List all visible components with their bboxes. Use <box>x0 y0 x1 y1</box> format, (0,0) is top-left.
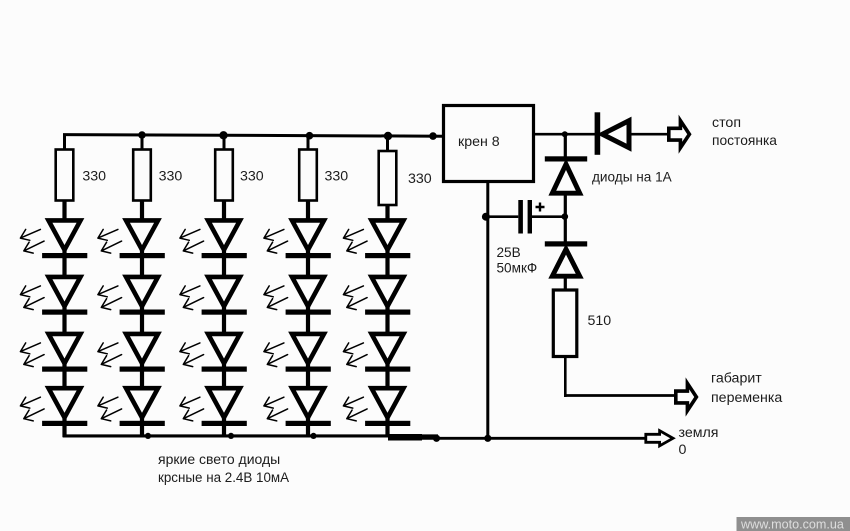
svg-text:стоп: стоп <box>712 115 741 131</box>
svg-text:постоянка: постоянка <box>712 133 777 148</box>
svg-text:0: 0 <box>679 442 687 458</box>
svg-text:крсные на 2.4В 10мА: крсные на 2.4В 10мА <box>158 470 289 485</box>
svg-text:330: 330 <box>240 168 264 184</box>
svg-text:330: 330 <box>325 168 349 184</box>
svg-text:габарит: габарит <box>711 370 762 386</box>
svg-text:переменка: переменка <box>711 390 782 406</box>
svg-text:510: 510 <box>588 313 612 329</box>
svg-text:330: 330 <box>159 168 183 184</box>
svg-text:330: 330 <box>82 168 106 184</box>
svg-text:www.moto.com.ua: www.moto.com.ua <box>740 517 844 531</box>
svg-text:330: 330 <box>408 171 432 187</box>
svg-text:крен 8: крен 8 <box>458 134 500 150</box>
svg-text:яркие свето диоды: яркие свето диоды <box>158 451 280 467</box>
svg-text:25В: 25В <box>497 245 521 260</box>
svg-text:диоды на 1А: диоды на 1А <box>592 170 673 185</box>
svg-text:50мкФ: 50мкФ <box>497 261 538 276</box>
svg-text:земля: земля <box>679 425 719 441</box>
